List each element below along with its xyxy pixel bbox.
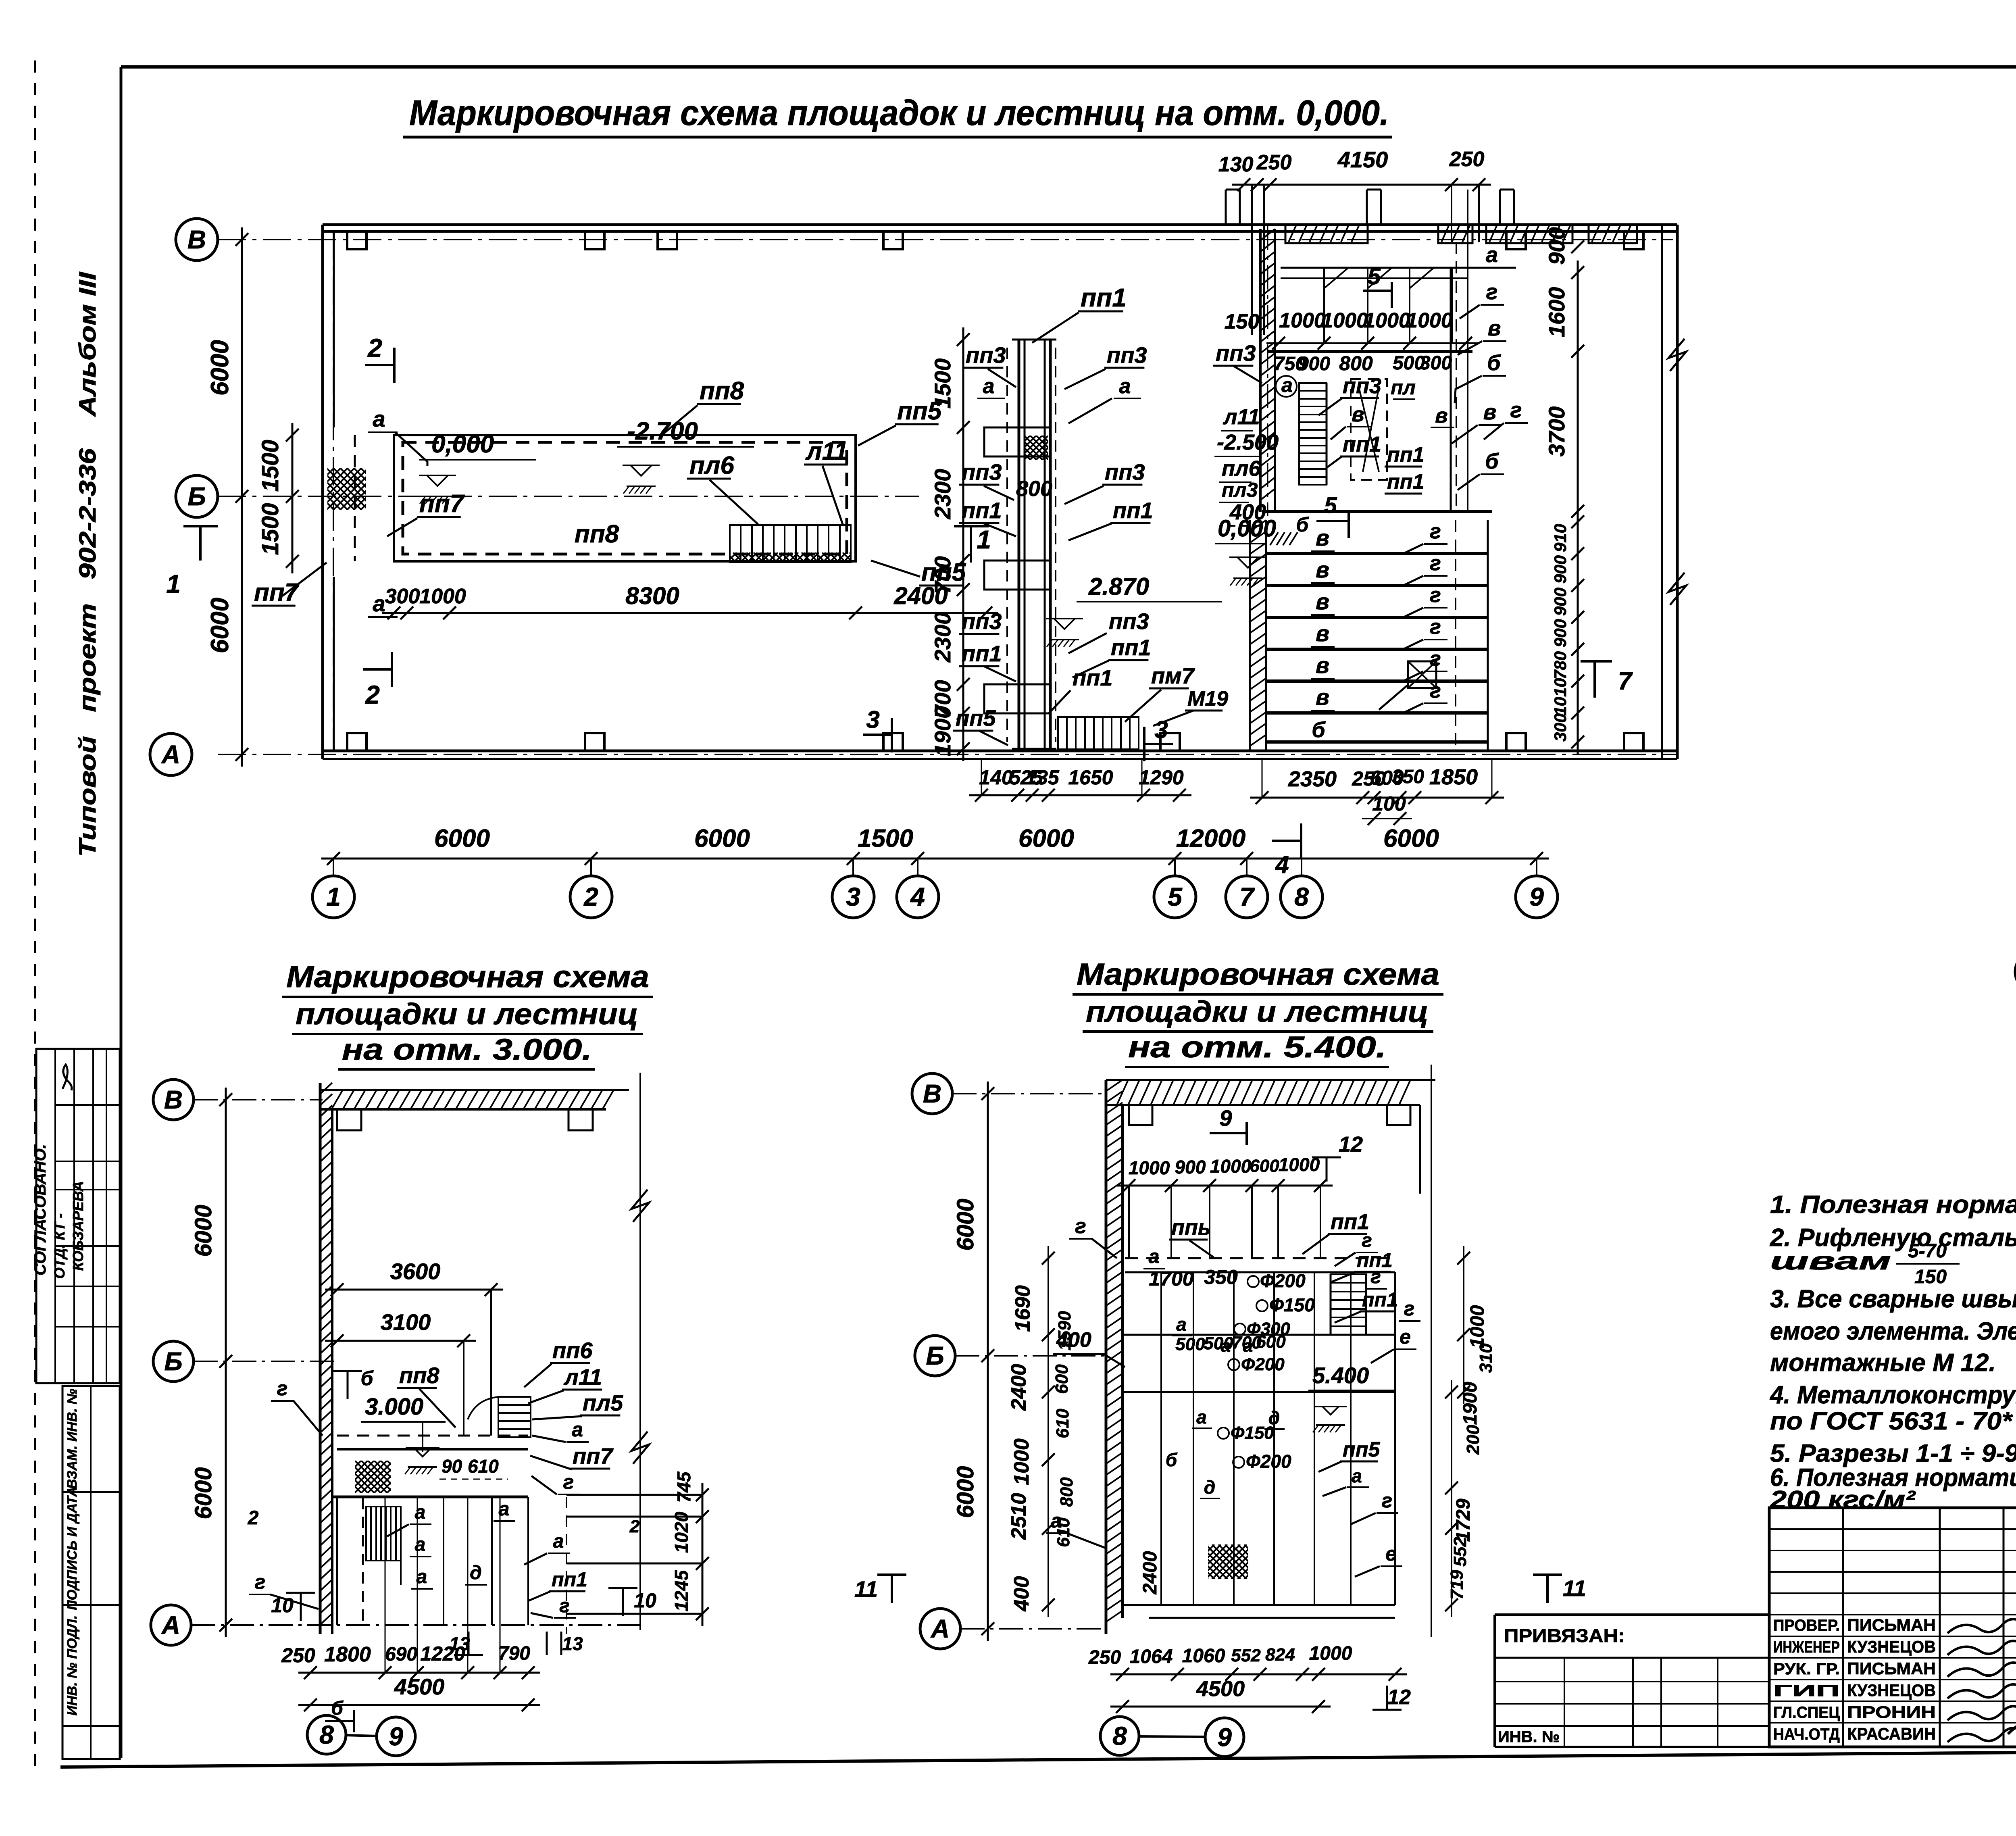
bottom wall [323,750,1677,752]
svg-text:ГИП: ГИП [1773,1682,1840,1700]
svg-text:1290: 1290 [1139,766,1183,789]
axis А line [218,754,1677,755]
svg-text:900: 900 [1551,619,1570,647]
svg-text:6000: 6000 [206,598,234,653]
svg-text:3: 3 [846,882,860,911]
svg-text:5: 5 [1368,263,1381,290]
bottom axis dim row [321,858,1549,860]
svg-text:900: 900 [1298,353,1330,375]
svg-text:3. Все сварные швы h = 6мм.: 3. Все сварные швы h = 6мм., но не более… [1770,1285,2016,1313]
svg-text:310: 310 [1476,1343,1496,1373]
hatched wall blocks top right [1285,225,1368,243]
svg-text:8: 8 [1112,1721,1127,1751]
X hatch bottom [1173,1544,1285,1579]
svg-text:824: 824 [1265,1645,1295,1665]
axis verticals inside plan [333,231,334,751]
svg-text:Ф150: Ф150 [1231,1423,1274,1443]
svg-text:140: 140 [979,766,1013,789]
left vertical dim 6000/6000 [241,227,243,767]
svg-text:пп8: пп8 [700,377,744,405]
grid verticals lower room [443,1497,444,1625]
svg-text:ПРИВЯЗАН:: ПРИВЯЗАН: [1504,1625,1625,1646]
svg-text:100: 100 [1372,792,1406,815]
svg-text:а: а [983,375,995,398]
svg-text:1000: 1000 [1309,1643,1352,1664]
svg-text:9: 9 [1529,882,1544,911]
svg-text:пп1: пп1 [552,1568,587,1591]
left stair with treads [1299,383,1327,485]
frame bottom [60,1748,2016,1767]
svg-text:600: 600 [1052,1364,1072,1394]
svg-text:г: г [1430,584,1441,607]
svg-text:12000: 12000 [1176,825,1245,852]
thin verticals from bottom dims [385,1497,386,1673]
svg-text:г: г [255,1571,266,1593]
axis circle 8 [1281,876,1322,918]
lower stairwell left hatched wall [1249,520,1251,751]
svg-text:3: 3 [866,706,879,733]
svg-text:2300: 2300 [930,469,955,520]
pit vertical dims 1500/1500 [292,423,294,573]
svg-text:6000: 6000 [190,1205,217,1257]
svg-text:3600: 3600 [390,1259,441,1284]
svg-text:2.870: 2.870 [1088,573,1149,600]
svg-text:610: 610 [468,1456,499,1477]
svg-text:1729: 1729 [1453,1498,1474,1542]
svg-text:1000: 1000 [1279,309,1326,332]
axis circle А [920,1609,960,1649]
axis dash lines [194,1099,323,1100]
svg-text:2400: 2400 [1139,1551,1161,1594]
svg-text:1700: 1700 [1149,1267,1193,1290]
svg-text:в: в [1352,403,1364,426]
top mini dims 130 250 4150 250 [1232,184,1491,186]
svg-text:250: 250 [281,1644,315,1667]
svg-text:6000: 6000 [190,1467,217,1519]
svg-text:пп1: пп1 [1343,432,1381,456]
left dims 6000 6000 [987,1082,989,1641]
title block [1769,1508,2016,1747]
svg-text:пп5: пп5 [1343,1438,1381,1461]
axis Б line [218,496,919,497]
svg-text:ПРОВЕР.: ПРОВЕР. [1773,1617,1840,1634]
svg-text:690: 690 [385,1644,417,1665]
svg-text:10: 10 [271,1594,294,1617]
svg-text:2510: 2510 [1007,1493,1031,1540]
svg-text:КОБЗАРЕВА: КОБЗАРЕВА [70,1181,86,1271]
hatched left wall of stairwell [1259,229,1262,512]
axis circle 9 [1205,1718,1244,1757]
svg-text:Б: Б [926,1341,944,1370]
verticals lower [1160,1272,1162,1605]
svg-text:2: 2 [248,1507,259,1529]
stair л11 hatched treads [730,525,851,562]
X hatch [323,1461,426,1493]
lower stair [366,1507,401,1561]
svg-text:6000: 6000 [1383,825,1439,852]
svg-text:А: А [161,740,180,769]
svg-text:1900: 1900 [1460,1382,1481,1425]
axis circle Б [915,1336,955,1376]
13 flags bottom [468,1632,470,1655]
svg-text:ппь: ппь [1171,1215,1211,1240]
svg-text:В: В [164,1085,183,1114]
tower walls [1018,340,1020,749]
svg-text:пп6: пп6 [552,1338,593,1363]
svg-text:1000: 1000 [1210,1156,1252,1177]
svg-text:350: 350 [1392,766,1424,788]
svg-text:а: а [415,1502,426,1523]
svg-text:В: В [187,225,206,254]
dashed axis line x=3610 lower [1455,520,1456,750]
svg-text:пп8: пп8 [399,1363,439,1388]
section mark 3 bottom [863,734,892,736]
svg-text:8: 8 [319,1720,334,1749]
svg-text:КУЗНЕЦОВ: КУЗНЕЦОВ [1847,1637,1936,1656]
svg-text:площадки и лестниц: площадки и лестниц [1086,995,1429,1028]
svg-text:7: 7 [1618,667,1633,695]
section mark 2 top [365,364,394,366]
svg-text:1650: 1650 [1068,766,1113,789]
svg-text:пп7: пп7 [419,490,465,518]
Б platform lines [1123,1334,1395,1336]
svg-text:г: г [1510,398,1522,422]
12 flag [1326,1157,1328,1182]
axis circle 2 [570,876,612,918]
svg-text:пл5: пл5 [583,1390,623,1415]
axis circle А [150,734,192,775]
svg-text:1010: 1010 [1551,678,1570,715]
right dim column of beams [1577,510,1579,754]
svg-text:5.400: 5.400 [1312,1363,1369,1388]
svg-text:1220: 1220 [420,1642,465,1665]
bottom dims [298,1672,540,1674]
sidebar stamp table Инв.№подл / Подпись и дата / Взам.инв.№ [62,1386,120,1759]
building walls [319,1083,322,1634]
svg-text:1000: 1000 [1406,309,1453,332]
svg-text:пп1: пп1 [962,641,1002,666]
svg-text:250: 250 [1088,1647,1121,1668]
svg-text:емого элемента. Электроды Э: емого элемента. Электроды Э 42, ГОСТ 946… [1770,1317,2016,1345]
svg-text:4150: 4150 [1337,147,1388,172]
svg-text:-2.500: -2.500 [1217,430,1279,454]
axis circle 4 [897,876,939,918]
svg-text:РУК. ГР.: РУК. ГР. [1773,1660,1840,1678]
svg-text:пл6: пл6 [1222,456,1261,481]
X-box detail [1408,661,1436,688]
svg-text:5. Разрезы 1-1 ÷ 9-9 см.: 5. Разрезы 1-1 ÷ 9-9 см. КЖ - 31 [1770,1440,2016,1467]
svg-text:0,000: 0,000 [431,430,494,458]
svg-text:б: б [1312,718,1326,742]
svg-text:6000: 6000 [434,825,490,852]
axis circle 9 [1516,876,1558,918]
guide verticals to lower dim rows [981,759,982,795]
svg-text:6000: 6000 [206,340,234,396]
svg-text:НАЧ.ОТД: НАЧ.ОТД [1773,1726,1840,1743]
svg-text:300: 300 [1420,352,1452,374]
svg-text:1000: 1000 [1364,309,1410,332]
lower platform lines [1123,1604,1395,1606]
dashed platform line [337,1435,528,1437]
svg-text:13: 13 [562,1633,583,1654]
svg-text:пл: пл [1391,376,1416,399]
svg-text:пп3: пп3 [1109,609,1149,634]
svg-text:ИНВ. № ПОДЛ.: ИНВ. № ПОДЛ. [65,1615,80,1716]
svg-text:250: 250 [1256,151,1292,174]
svg-text:а: а [1051,1509,1062,1532]
4 section flag [1272,840,1301,842]
svg-text:2: 2 [365,680,380,709]
svg-text:2: 2 [629,1517,640,1536]
svg-text:6000: 6000 [952,1466,979,1518]
svg-text:790: 790 [498,1643,530,1664]
stairwell right wall verticals [1450,268,1452,511]
section mark 2 bottom [363,668,392,671]
svg-text:КРАСАВИН: КРАСАВИН [1847,1724,1936,1743]
svg-text:пп3: пп3 [966,342,1006,368]
svg-text:б: б [1485,449,1499,473]
svg-text:300: 300 [1551,713,1570,742]
svg-text:а: а [1352,1465,1362,1486]
svg-text:1064: 1064 [1130,1646,1173,1667]
svg-text:6000: 6000 [1018,825,1074,852]
svg-text:745: 745 [673,1471,694,1503]
right extension lines + dim col 745/1020/1245 [566,1494,702,1496]
svg-text:12: 12 [1339,1132,1363,1157]
right wall with break marks [1661,225,1663,759]
svg-text:4500: 4500 [1196,1677,1245,1701]
svg-text:пп7: пп7 [254,579,300,606]
Привязан cell [1495,1613,1769,1616]
axis circle 3 [832,876,874,918]
svg-text:Ф150: Ф150 [1269,1294,1315,1315]
axis circle 1 [312,876,354,918]
svg-text:ПРОНИН: ПРОНИН [1847,1703,1936,1721]
svg-text:ОТД. КТ -: ОТД. КТ - [51,1213,68,1279]
svg-text:Ф200: Ф200 [1246,1451,1291,1472]
svg-text:1690: 1690 [1011,1285,1035,1332]
sheet outer edge dashed [34,60,36,1772]
svg-text:-2.700: -2.700 [627,417,698,445]
svg-text:пп1: пп1 [1362,1288,1398,1311]
svg-text:1600: 1600 [1544,287,1569,338]
svg-text:135: 135 [1025,766,1060,789]
right dim column 900/1600/3700 [1577,260,1579,523]
svg-text:1245: 1245 [671,1569,692,1611]
svg-text:пп1: пп1 [1387,470,1424,494]
svg-text:М19: М19 [1187,687,1228,711]
svg-text:швам: швам [1770,1247,1891,1275]
svg-text:1000: 1000 [1010,1438,1033,1485]
12 flag bottom [1386,1686,1388,1710]
svg-text:А: А [930,1614,950,1643]
svg-text:ГЛ.СПЕЦ: ГЛ.СПЕЦ [1773,1704,1840,1721]
svg-text:600: 600 [1250,1156,1279,1176]
corner stair (quarter) [498,1397,531,1437]
lower stairwell right edge [1487,520,1489,750]
svg-text:а: а [1149,1246,1160,1267]
б flag [347,1371,349,1399]
svg-text:по ГОСТ 5631 - 70*: по ГОСТ 5631 - 70* [1770,1407,2013,1435]
middle tower vertical dims [962,327,964,761]
svg-text:в: в [1483,400,1497,424]
svg-text:пп3: пп3 [962,459,1002,485]
svg-text:а: а [553,1531,564,1552]
axis circle 8 [307,1715,346,1754]
signatures [1947,1619,2016,1633]
5 section flag [1363,290,1392,292]
axis circle В [153,1080,194,1120]
svg-text:250: 250 [1449,148,1485,171]
left vertical dims 6000 6000 [225,1088,227,1637]
svg-text:пп3: пп3 [962,609,1002,634]
svg-text:1500: 1500 [930,358,955,409]
svg-text:150: 150 [1914,1266,1947,1288]
svg-text:г: г [563,1471,574,1493]
svg-text:5: 5 [1324,492,1337,518]
svg-text:1000: 1000 [1467,1305,1488,1348]
svg-text:4: 4 [1275,851,1289,878]
svg-text:а: а [1176,1314,1187,1335]
svg-text:1500: 1500 [257,503,283,555]
frame left [120,67,123,1758]
svg-text:пп3: пп3 [1105,459,1145,485]
svg-text:в: в [1316,525,1329,550]
signature squiggle [62,1065,72,1090]
axis circle Б [153,1341,194,1382]
section mark 1 right of pit [970,526,972,563]
svg-text:г: г [1430,520,1441,543]
svg-text:а: а [417,1566,427,1588]
svg-text:в: в [1316,557,1329,582]
svg-text:а: а [373,406,385,431]
svg-text:1850: 1850 [1429,765,1478,789]
svg-text:на отм. 5.400.: на отм. 5.400. [1128,1030,1386,1064]
svg-text:300: 300 [385,585,420,608]
svg-text:пл3: пл3 [1222,479,1258,501]
svg-text:9: 9 [1217,1723,1232,1752]
svg-text:400: 400 [1010,1576,1033,1612]
svg-text:7: 7 [1239,882,1255,911]
heavy lower floor line [1262,510,1492,513]
section mark 1 left [199,526,202,561]
svg-text:9: 9 [1219,1105,1232,1131]
tower rungs [1019,427,1050,429]
axis circle Б [2015,952,2016,992]
svg-text:552: 552 [1450,1537,1470,1567]
svg-text:ИНЖЕНЕР: ИНЖЕНЕР [1773,1638,1840,1656]
svg-text:350: 350 [1204,1266,1238,1288]
svg-text:в: в [1316,589,1329,614]
svg-text:6000: 6000 [952,1198,979,1250]
svg-text:1590: 1590 [1055,1311,1075,1350]
svg-text:в: в [1316,652,1329,678]
svg-text:5: 5 [1168,882,1183,911]
svg-text:пл6: пл6 [689,452,734,479]
svg-text:1: 1 [326,882,341,911]
svg-text:610: 610 [1053,1409,1073,1438]
dashed partition left of pit [354,435,356,561]
tower landings left [984,427,1019,456]
svg-text:б: б [361,1367,374,1390]
svg-text:г: г [277,1377,288,1400]
svg-text:а: а [1243,1336,1253,1356]
svg-text:а: а [1486,243,1498,267]
grid verticals [1128,1186,1130,1258]
svg-text:4. Металлоконструкции акрасит: 4. Металлоконструкции акрасить краской Б… [1769,1381,2016,1409]
svg-text:Б: Б [164,1347,182,1376]
svg-text:а: а [572,1418,583,1441]
svg-text:л11: л11 [1223,405,1260,429]
axis circle 9 [377,1717,415,1756]
svg-text:г: г [1370,1266,1381,1288]
Т11 marks [891,1575,893,1603]
svg-text:12: 12 [1387,1686,1411,1709]
svg-text:900: 900 [1544,227,1569,265]
svg-text:10: 10 [634,1589,656,1612]
top wall [323,223,1677,226]
axis circle В [176,219,218,260]
svg-text:552: 552 [1231,1646,1261,1665]
svg-text:2400: 2400 [1007,1364,1031,1411]
svg-text:пп1: пп1 [962,498,1002,523]
svg-text:л11: л11 [563,1364,602,1390]
svg-text:б: б [1487,351,1501,375]
frame top [121,65,2016,69]
svg-text:г: г [1075,1215,1086,1238]
svg-text:1000: 1000 [1321,309,1368,332]
svg-text:4500: 4500 [394,1674,445,1699]
svg-text:г: г [1430,615,1441,639]
middle stair flight dashed [1351,379,1387,480]
svg-text:Маркировочная схема: Маркировочная схема [286,960,649,994]
svg-text:500: 500 [1175,1334,1205,1354]
svg-text:д: д [470,1562,482,1584]
svg-text:900: 900 [1551,588,1570,616]
svg-text:А: А [161,1611,180,1640]
svg-text:в: в [1488,316,1501,340]
svg-text:4: 4 [910,882,925,911]
svg-text:1000: 1000 [419,585,466,608]
svg-text:1000: 1000 [1129,1157,1170,1178]
stair right mid [1331,1274,1366,1335]
bottom dims [1110,1673,1407,1676]
tower bottom dims 140 525 135 1650 1290 [969,794,1191,796]
Т7 mark [1593,661,1596,698]
svg-text:9: 9 [389,1722,403,1751]
svg-text:г: г [1430,552,1441,575]
svg-text:в: в [1316,684,1329,710]
10 section marks [300,1593,302,1621]
svg-text:в: в [1316,621,1329,646]
svg-text:В: В [923,1079,941,1108]
vertical mini risers above top wall [1225,190,1227,225]
mid floor line [332,1496,528,1498]
svg-text:700: 700 [930,556,955,594]
svg-text:1. Полезная нормативная нагр: 1. Полезная нормативная нагрузка на площ… [1770,1191,2016,1219]
9 section flag [1210,1132,1247,1134]
svg-text:ИНВ. №: ИНВ. № [1498,1728,1560,1746]
svg-text:3100: 3100 [381,1309,431,1335]
svg-text:монтажные М 12.: монтажные М 12. [1770,1349,1996,1377]
svg-text:пп3: пп3 [1107,342,1147,368]
left wall [321,225,324,759]
axis circle 7 [1226,876,1268,918]
svg-text:Б: Б [187,482,206,511]
svg-text:0,000: 0,000 [1218,515,1276,542]
svg-text:1500: 1500 [858,825,913,852]
svg-text:пп1: пп1 [1113,498,1153,523]
